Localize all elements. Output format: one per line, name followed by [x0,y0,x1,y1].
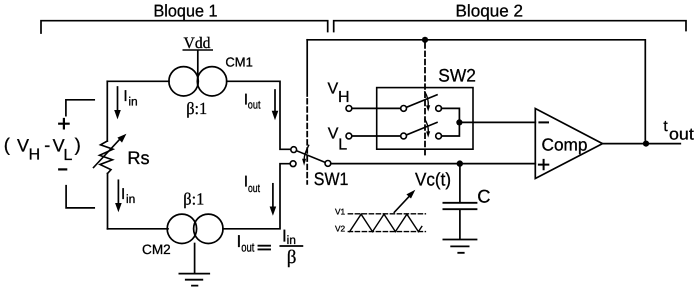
terminal VH [346,106,352,112]
level line V1 dashed [348,213,425,215]
junction node capacitor tap [457,160,463,166]
svg-text:out: out [248,183,261,195]
label beta:1 bottom [183,189,204,208]
formula Iout = Iin/beta [237,226,297,268]
label VL [328,126,347,154]
resistor Rs (variable) [100,141,114,174]
svg-text:C: C [477,186,490,207]
label SW1 [314,169,349,189]
svg-text:): ) [75,134,81,155]
svg-text:CM2: CM2 [142,242,171,257]
junction node output [643,141,649,147]
svg-text:in: in [126,192,135,206]
formula fraction bar [280,245,302,247]
node label ( VH - VL ) [4,134,81,164]
svg-text:V: V [328,80,339,97]
svg-text:out: out [248,100,261,112]
label tout [663,118,694,144]
wire top-left horizontal [107,80,169,82]
svg-text:Comp: Comp [542,135,588,155]
svg-text:β:1: β:1 [183,189,204,208]
wire bottom-left horizontal [108,228,169,230]
svg-text:Rs: Rs [127,148,149,168]
label C [477,186,490,207]
svg-text:V2: V2 [335,224,346,234]
svg-text:Vc(t): Vc(t) [415,168,451,189]
label Rs [127,148,149,168]
minus sign [59,168,66,170]
wire capacitor stem upper [459,164,461,202]
svg-text:out: out [669,126,694,144]
bracket Bloque 2 [334,21,686,32]
svg-text:Bloque 1: Bloque 1 [154,1,218,20]
label Iin top [123,88,137,108]
label V2 [335,224,346,234]
arrow Iin top [114,87,121,119]
arrow Iin bottom [115,180,122,212]
comparator minus symbol [539,121,548,123]
label Vc(t) [415,168,451,189]
ground CM2 [179,274,209,286]
label Iout bottom [244,174,261,195]
svg-text:I: I [121,186,125,203]
control arrow SW2b [425,119,430,137]
switch SW2a left terminal [401,106,407,112]
label CM1 [225,54,252,69]
label SW2 [438,66,476,86]
wire left vertical upper [106,81,108,141]
bracket Bloque 1 [41,21,328,33]
svg-text:Bloque 2: Bloque 2 [456,2,524,21]
label VH [328,80,350,106]
svg-text:β: β [287,247,297,268]
wire feedback top [307,40,645,140]
ground capacitor [443,240,476,253]
control arrow SW1 [302,145,309,166]
source minus corner [66,186,94,208]
svg-text:H: H [338,89,350,106]
wire capacitor stem lower [459,210,461,239]
wire CM1 right [227,81,291,149]
arrow to Vc(t) [394,190,415,213]
terminal VL [346,133,352,139]
switch box SW2 [377,88,473,150]
wire to comparator minus [459,121,535,123]
junction node top [422,37,428,43]
svg-text:-: - [44,135,50,155]
current mirror CM2 [167,214,223,243]
arrow through Rs [94,134,127,168]
wire CM2 ground stem [194,244,196,273]
label Iout top [244,92,261,112]
formula equals sign [259,246,271,250]
comparator U1 [535,109,602,179]
control wire dashed SW1 [306,99,308,184]
svg-text:L: L [64,147,73,164]
switch SW2a right terminal [436,106,442,112]
label Bloque 2 [456,2,524,21]
wire left vertical lower [107,174,109,229]
arrow Iout top [272,90,279,120]
switch SW2a blade [407,95,438,108]
svg-text:V1: V1 [335,207,346,217]
wire Vdd stem [197,51,199,78]
wire SW2a out [442,108,460,122]
switch SW1 common terminal [325,161,331,167]
wire CM2 right [223,164,290,229]
supply Vdd label [184,35,211,52]
svg-text:SW2: SW2 [438,66,476,86]
svg-text:CM1: CM1 [225,54,252,69]
svg-text:in: in [287,233,296,247]
current mirror CM1 [169,67,227,96]
svg-text:V: V [328,126,339,143]
svg-text:t: t [663,118,668,135]
capacitor C [443,203,476,209]
wire SW2b out [442,122,460,136]
wire VL to SW2 [352,135,401,137]
supply Vdd underline [183,49,212,51]
svg-text:in: in [128,94,137,108]
svg-text:L: L [338,137,347,154]
svg-text:V: V [17,135,29,155]
svg-text:(: ( [4,134,11,155]
control arrow SW2a [425,92,430,112]
label Bloque 1 [154,1,218,20]
plus sign [59,119,68,128]
svg-text:I: I [123,88,127,105]
control wire dashed SW2 [424,43,426,157]
label V1 [335,207,346,217]
svg-text:β:1: β:1 [186,99,207,118]
level line V2 dashed [348,231,425,233]
svg-text:out: out [241,240,255,254]
label beta:1 top [186,99,207,118]
switch SW2b blade [407,122,438,134]
arrow Iout bottom [270,184,277,216]
switch SW2b right terminal [436,133,442,139]
wire SW1 common to comparator plus [331,163,536,165]
label CM2 [142,242,171,257]
label Iin bottom [121,186,135,206]
switch SW1 lower terminal [290,161,296,167]
junction node SW2 out [456,119,462,125]
control wire solid from top [306,40,308,96]
switch SW1 blade [297,151,326,163]
switch SW1 upper terminal [291,147,297,153]
waveform Vc triangle [350,214,422,231]
switch SW2b left terminal [401,133,407,139]
svg-text:SW1: SW1 [314,169,349,189]
svg-text:H: H [29,147,41,164]
label Comp [542,135,588,155]
source plus corner [66,100,94,116]
comparator plus symbol [539,160,548,169]
wire comparator output [603,143,681,145]
wire VH to SW2 [352,107,401,109]
